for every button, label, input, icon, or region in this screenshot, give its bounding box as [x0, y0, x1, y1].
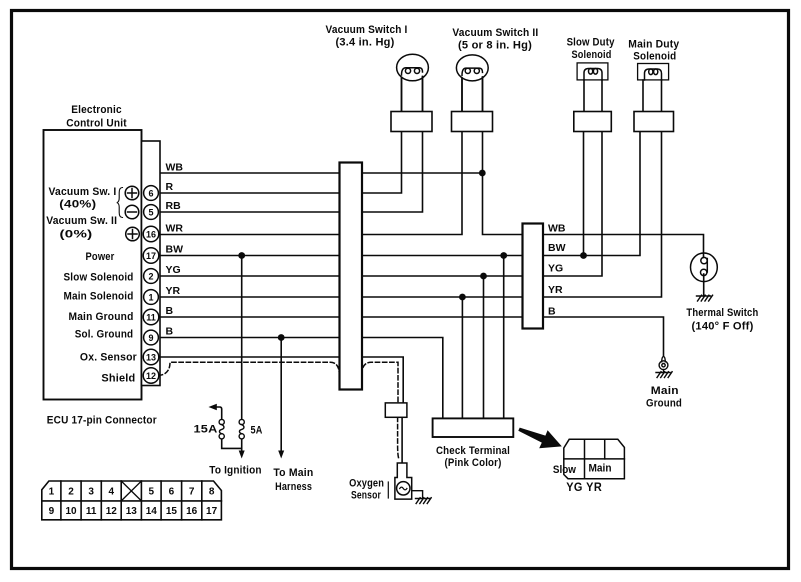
wire: slow duty coil leads through connector: [584, 80, 602, 112]
arrow: 15A feed (to battery): [209, 404, 217, 410]
svg-text:16: 16: [146, 229, 156, 239]
svg-text:Sol. Ground: Sol. Ground: [75, 329, 134, 341]
svg-text:Electronic: Electronic: [71, 104, 122, 116]
wire: vacuum switch II leads to connector: [462, 77, 483, 112]
svg-text:Vacuum Sw. II: Vacuum Sw. II: [46, 215, 117, 227]
wire RB (y=212, turns up to Vacuum Switch I right lead): [160, 77, 423, 213]
svg-text:12: 12: [146, 371, 156, 381]
junction: YG / check terminal branch: [480, 273, 487, 280]
svg-text:14: 14: [146, 506, 158, 517]
svg-text:B: B: [166, 326, 174, 338]
wire: main duty coil leads through connector: [643, 80, 662, 112]
wire R (y=193, turns up to Vacuum Switch I left lead): [160, 78, 402, 194]
svg-text:Oxygen: Oxygen: [349, 477, 384, 489]
connector: vacuum switch I inline connector: [391, 112, 432, 132]
svg-text:3: 3: [88, 487, 94, 498]
svg-text:1: 1: [148, 292, 153, 302]
junction: BW / slow duty solenoid left lead: [580, 252, 587, 259]
svg-text:B: B: [548, 306, 556, 318]
main ground eyelet terminal: [659, 357, 668, 370]
svg-text:Vacuum Switch I: Vacuum Switch I: [326, 24, 408, 36]
svg-text:Shield: Shield: [101, 373, 135, 385]
svg-text:(40%): (40%): [59, 198, 96, 210]
polarity minus (pin 5): [125, 205, 139, 219]
pin 6: [144, 186, 159, 201]
vacuum switch SW2 (Vacuum Switch II): [456, 55, 488, 81]
svg-text:(Pink Color): (Pink Color): [445, 457, 502, 469]
svg-text:Ground: Ground: [646, 398, 682, 410]
ground: main ground symbol: [656, 370, 672, 378]
arrow: to ignition: [239, 451, 245, 459]
svg-text:YG: YG: [548, 263, 563, 275]
wire YR right section up to Main Duty Solenoid right lead: [543, 132, 662, 298]
wire BW right section up to Main Duty Solenoid left lead: [543, 132, 640, 256]
wire: vacuum switch I leads to connector: [402, 77, 423, 112]
svg-text:7: 7: [189, 487, 195, 498]
ECU box: [44, 130, 142, 400]
junction: BW / check terminal branch: [500, 252, 507, 259]
svg-text:Vacuum Switch II: Vacuum Switch II: [452, 27, 538, 39]
oxygen sensor B1 body: [395, 463, 412, 499]
ground: thermal switch ground: [697, 295, 713, 301]
svg-text:Ox. Sensor: Ox. Sensor: [80, 352, 137, 364]
pin 9: [144, 330, 159, 345]
svg-text:BW: BW: [166, 244, 184, 256]
svg-text:10: 10: [65, 506, 77, 517]
pin 17: [143, 248, 159, 264]
svg-text:5: 5: [148, 207, 153, 217]
svg-text:Vacuum Sw. I: Vacuum Sw. I: [49, 186, 117, 198]
pin 2: [144, 269, 159, 284]
svg-text:Slow Solenoid: Slow Solenoid: [64, 272, 134, 284]
polarity plus (pin 6): [125, 186, 139, 200]
solenoid L1 (Slow Duty Solenoid coil): [577, 63, 608, 80]
svg-text:5A: 5A: [251, 424, 263, 436]
pin 11: [143, 309, 159, 325]
svg-text:11: 11: [146, 312, 156, 322]
wire: oxygen sensor case to ground: [412, 491, 423, 498]
ECU pin column: [142, 141, 161, 386]
svg-text:WB: WB: [548, 223, 566, 235]
wire: shield dashed below oxygen connector: [398, 417, 400, 460]
connector: oxygen sensor inline connector: [385, 403, 407, 417]
svg-text:15: 15: [166, 506, 178, 517]
wire WB right section to thermal switch: [543, 235, 704, 258]
wire B right section down to main ground: [543, 317, 664, 356]
svg-text:9: 9: [148, 333, 153, 343]
svg-text:Main: Main: [651, 385, 679, 397]
wire YG (y=276, ECU to right connector): [160, 275, 523, 277]
svg-text:(3.4 in. Hg): (3.4 in. Hg): [336, 37, 395, 49]
svg-text:WR: WR: [166, 223, 184, 235]
svg-text:Power: Power: [86, 251, 115, 263]
pin 13: [143, 349, 159, 365]
wire YR (y=297, ECU to right connector): [160, 296, 523, 298]
harness bus J1 (center vertical connector bar): [340, 163, 363, 390]
tick mark after Sensor label: [387, 482, 389, 498]
svg-text:(140° F Off): (140° F Off): [692, 320, 754, 332]
wire: thermal switch to ground: [703, 274, 705, 296]
svg-text:2: 2: [68, 487, 74, 498]
wire YG right section up to Slow Duty Solenoid right lead: [543, 132, 602, 277]
connector: slow/main check connector: [564, 439, 625, 478]
junction: B sol. ground / to main harness: [278, 334, 285, 341]
wire: to-ignition drop below fuses: [241, 438, 243, 451]
svg-text:13: 13: [126, 506, 138, 517]
svg-text:BW: BW: [548, 242, 566, 254]
check terminal CT1: [433, 418, 514, 437]
svg-text:11: 11: [86, 506, 97, 517]
svg-text:Main Solenoid: Main Solenoid: [64, 291, 134, 303]
wire WB (ECU pin to junction, y=173): [160, 172, 482, 174]
wire B main ground (y=317, ECU to right connector): [160, 316, 523, 318]
wire: oxygen sensor lead below connector: [401, 417, 403, 464]
pin 12: [143, 368, 159, 384]
solenoid L2 (Main Duty Solenoid coil): [638, 64, 669, 81]
connector: slow duty solenoid inline connector: [574, 112, 612, 132]
wire WR (y=234.5, turns up to Vacuum Switch II left lead): [160, 78, 462, 235]
svg-text:Control Unit: Control Unit: [66, 118, 127, 130]
connector: vacuum switch II inline connector: [452, 112, 493, 132]
wire: Vacuum Switch II right lead down through WB junction to connector WB port: [483, 77, 523, 235]
svg-text:(0%): (0%): [60, 228, 93, 240]
svg-text:1: 1: [49, 487, 55, 498]
harness connector J2 (right vertical bar): [523, 224, 544, 329]
svg-text:Solenoid: Solenoid: [633, 51, 676, 63]
junction: WB / vacuum switch II right lead: [479, 170, 486, 177]
svg-text:2: 2: [148, 271, 153, 281]
svg-text:Solenoid: Solenoid: [572, 49, 612, 61]
svg-text:YG YR: YG YR: [566, 480, 602, 494]
svg-text:(5 or 8 in. Hg): (5 or 8 in. Hg): [458, 40, 532, 52]
wire: YR branch down to check terminal: [461, 297, 463, 418]
wire: 15A fuse bottom lead joining 5A drop: [222, 438, 242, 448]
svg-text:To Ignition: To Ignition: [209, 464, 262, 476]
brace for vacuum switch labels: [117, 188, 123, 218]
svg-text:R: R: [166, 181, 174, 193]
arrow: check terminal callout: [518, 428, 562, 449]
junction: YR / check terminal branch: [459, 294, 466, 301]
wire Ox. Sensor signal (y=357, turns down to oxygen sensor): [160, 357, 403, 403]
svg-text:WB: WB: [166, 162, 184, 174]
svg-text:17: 17: [146, 251, 156, 261]
svg-text:Main Duty: Main Duty: [628, 39, 680, 51]
wire B sol. ground (y=337.5, turns down into check terminal): [160, 338, 443, 419]
ground: oxygen sensor ground: [416, 498, 432, 504]
svg-text:Slow: Slow: [553, 464, 576, 476]
svg-text:B: B: [166, 305, 174, 317]
svg-text:4: 4: [109, 487, 115, 498]
polarity plus (pin 16): [126, 227, 140, 241]
svg-text:Check Terminal: Check Terminal: [436, 445, 510, 457]
svg-text:RB: RB: [166, 200, 182, 212]
pin 16: [143, 226, 159, 242]
wire shield (pin 12 dashed, hops under harness bus): [158, 362, 398, 403]
pin 5: [144, 205, 159, 220]
svg-text:13: 13: [146, 352, 156, 362]
wire: BW branch down to check terminal: [503, 256, 505, 419]
wire: 15A fuse top lead with corner: [212, 407, 222, 420]
wire: 5A fuse feed from BW junction down: [241, 256, 243, 421]
svg-text:Slow Duty: Slow Duty: [567, 37, 616, 49]
svg-text:17: 17: [206, 506, 218, 517]
fuse F1 15A: [219, 419, 224, 439]
svg-text:Main: Main: [589, 463, 612, 475]
svg-text:ECU 17-pin Connector: ECU 17-pin Connector: [47, 415, 157, 427]
svg-text:8: 8: [209, 487, 215, 498]
svg-text:YR: YR: [166, 285, 181, 297]
vacuum switch SW1 (Vacuum Switch I): [397, 54, 429, 81]
svg-text:Sensor: Sensor: [351, 489, 381, 501]
svg-text:Main Ground: Main Ground: [69, 311, 134, 323]
svg-text:16: 16: [186, 506, 198, 517]
svg-text:5: 5: [149, 487, 155, 498]
arrow: to main harness: [278, 451, 284, 459]
svg-text:To Main: To Main: [273, 467, 313, 479]
wire: Slow Duty Solenoid left lead to BW junction: [583, 132, 585, 256]
svg-text:6: 6: [148, 188, 153, 198]
svg-text:YR: YR: [548, 284, 563, 296]
svg-text:Harness: Harness: [275, 481, 312, 493]
connector: main duty solenoid inline connector: [634, 112, 674, 132]
pin 1: [144, 290, 159, 305]
crossed-out cell: [121, 481, 141, 501]
junction: BW / 5A fuse feed: [238, 252, 245, 259]
svg-text:YG: YG: [166, 264, 181, 276]
wire: YG branch down to check terminal: [483, 276, 485, 418]
connector: ECU 17-pin connector drawing: [42, 481, 222, 520]
wire: to main harness drop from B sol. ground junction: [280, 338, 282, 452]
svg-text:6: 6: [169, 487, 175, 498]
thermal switch SW3: [691, 253, 718, 282]
svg-text:9: 9: [49, 506, 55, 517]
svg-text:15A: 15A: [194, 423, 218, 435]
svg-text:12: 12: [106, 506, 118, 517]
fuse F2 5A: [239, 419, 244, 439]
svg-text:Thermal Switch: Thermal Switch: [686, 307, 758, 319]
wire BW (y=255.5, ECU to right connector): [160, 255, 523, 257]
